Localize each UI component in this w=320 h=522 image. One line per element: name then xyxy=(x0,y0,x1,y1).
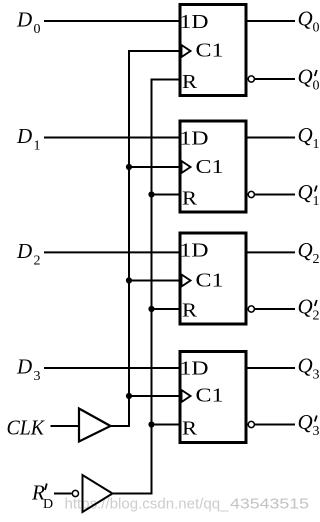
junction dot FF2 R xyxy=(148,306,154,312)
svg-text:0: 0 xyxy=(34,22,41,37)
svg-text:Q: Q xyxy=(298,295,313,319)
svg-text:2: 2 xyxy=(313,309,320,324)
label Q2 xyxy=(298,238,320,267)
wire Q0' output xyxy=(255,78,295,80)
svg-text:D: D xyxy=(43,497,53,512)
svg-text:Q: Q xyxy=(298,7,313,31)
label Q3' xyxy=(298,410,320,439)
wire FF3 C1 branch xyxy=(129,395,180,397)
wire CLK bus vertical (buffer output up to FF0 C1) xyxy=(111,51,181,426)
wire FF1 C1 branch xyxy=(129,166,180,168)
label Q1' xyxy=(298,180,320,209)
wire Q1' output xyxy=(255,194,295,196)
svg-text:3: 3 xyxy=(313,424,320,439)
wire D0 input xyxy=(44,20,180,22)
wire Q3' output xyxy=(255,424,295,426)
D flip-flop FF2 box xyxy=(180,233,247,324)
svg-text:0: 0 xyxy=(313,21,320,36)
svg-text:0: 0 xyxy=(313,79,320,94)
label D1 xyxy=(16,124,41,154)
svg-text:Q: Q xyxy=(298,354,313,378)
wire D1 input xyxy=(44,137,180,139)
label Q2' xyxy=(298,295,320,324)
wire Q1 output xyxy=(246,137,295,139)
wire FF3 R branch xyxy=(152,424,181,426)
svg-text:Q: Q xyxy=(298,238,313,262)
wire D2 input xyxy=(44,251,180,253)
bubble Q1' xyxy=(248,191,254,197)
wire FF2 R branch xyxy=(152,308,181,310)
D flip-flop FF1 box xyxy=(180,121,247,212)
bubble Q2' xyxy=(248,306,254,312)
junction dot FF1 C1 xyxy=(126,164,132,170)
CLK input wire xyxy=(51,425,80,427)
svg-text:D: D xyxy=(16,124,32,148)
label RD' xyxy=(31,481,53,513)
junction dot FF1 R xyxy=(148,191,154,197)
junction dot FF2 C1 xyxy=(126,277,132,283)
svg-text:1D: 1D xyxy=(180,12,209,33)
buffer RD (triangle) xyxy=(83,475,113,512)
svg-text:1D: 1D xyxy=(180,241,209,262)
junction dot FF3 C1 xyxy=(126,393,132,399)
svg-text:43543515: 43543515 xyxy=(230,497,309,513)
svg-text:2: 2 xyxy=(313,252,320,267)
svg-text:3: 3 xyxy=(313,368,320,383)
bubble Q3' xyxy=(248,421,254,427)
wire Q0 output xyxy=(246,20,295,22)
buffer CLK (triangle) xyxy=(79,409,111,442)
svg-text:CLK: CLK xyxy=(7,416,45,440)
label Q0' xyxy=(298,65,320,94)
svg-text:C1: C1 xyxy=(196,386,224,407)
wire Q2 output xyxy=(246,251,295,253)
svg-text:C1: C1 xyxy=(196,40,224,61)
svg-text:https://blog.csdn.net/qq_: https://blog.csdn.net/qq_ xyxy=(65,497,230,513)
svg-text:D: D xyxy=(16,8,32,32)
junction dot FF3 R xyxy=(148,421,154,427)
svg-text:C1: C1 xyxy=(196,270,224,291)
svg-text:Q: Q xyxy=(298,65,313,89)
svg-text:2: 2 xyxy=(34,253,41,268)
RD input wire xyxy=(54,493,72,495)
label Q3 xyxy=(298,354,320,383)
wire Q2' output xyxy=(255,308,295,310)
D flip-flop FF0 box xyxy=(180,5,247,96)
svg-text:D: D xyxy=(16,239,32,263)
svg-text:3: 3 xyxy=(34,369,41,384)
svg-text:1: 1 xyxy=(34,139,41,154)
svg-text:R: R xyxy=(182,301,197,322)
label D3 xyxy=(16,355,41,385)
svg-text:1: 1 xyxy=(313,137,320,152)
bubble Q0' xyxy=(248,76,254,82)
svg-text:R: R xyxy=(182,72,197,93)
svg-text:1D: 1D xyxy=(180,129,209,150)
svg-text:1D: 1D xyxy=(180,359,209,380)
label Q1 xyxy=(298,123,320,152)
label D2 xyxy=(16,239,41,269)
wire RD bus vertical (inverter output up to FF0 R) xyxy=(113,80,181,494)
svg-text:Q: Q xyxy=(298,410,313,434)
wire D3 input xyxy=(44,367,180,369)
svg-text:Q: Q xyxy=(298,180,313,204)
svg-text:C1: C1 xyxy=(196,157,224,178)
svg-text:Q: Q xyxy=(298,123,313,147)
wire Q3 output xyxy=(246,367,295,369)
svg-text:R: R xyxy=(182,419,197,440)
D flip-flop FF3 box xyxy=(180,352,247,443)
wire FF2 C1 branch xyxy=(129,280,180,282)
svg-text:1: 1 xyxy=(313,194,320,209)
inverter bubble RD xyxy=(72,490,78,496)
svg-text:R: R xyxy=(182,189,197,210)
wire FF1 R branch xyxy=(152,194,181,196)
label D0 xyxy=(16,8,41,38)
label Q0 xyxy=(298,7,320,36)
svg-text:D: D xyxy=(16,355,32,379)
